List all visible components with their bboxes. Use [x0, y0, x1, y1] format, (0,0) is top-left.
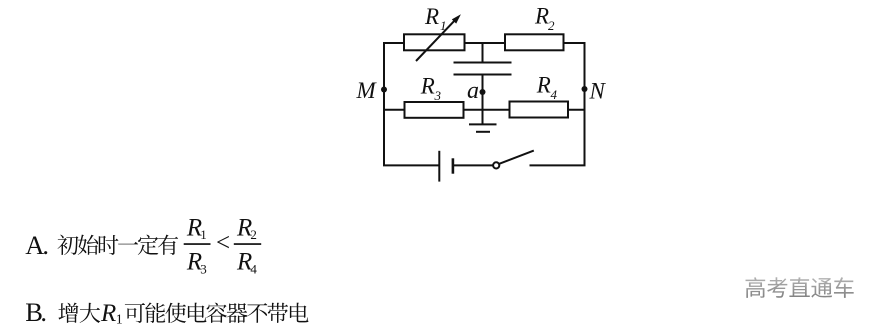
resistor R3 [405, 102, 464, 118]
label R2 [534, 4, 555, 33]
svg-text:.: . [42, 230, 49, 260]
svg-text:R: R [420, 74, 435, 99]
svg-text:4: 4 [250, 262, 257, 277]
option A chinese text 初始时一定有 [58, 235, 179, 255]
svg-text:4: 4 [551, 87, 558, 102]
svg-text:1: 1 [200, 227, 207, 242]
svg-text:1: 1 [440, 18, 447, 33]
label R1 [424, 4, 447, 33]
switch S in bottom branch [493, 151, 534, 169]
option A row [25, 230, 49, 260]
node N (junction dot) [582, 86, 588, 92]
wire: battery to switch [453, 164, 493, 166]
svg-text:R: R [536, 73, 551, 98]
label R3 [420, 74, 442, 104]
svg-text:a: a [467, 78, 479, 104]
ground symbol below node a [469, 124, 497, 131]
option B row [25, 297, 47, 327]
option B chinese text 可能使电容器不带电 [125, 302, 309, 323]
wire: top branch (R1-R2 row) [383, 42, 586, 44]
svg-text:.: . [40, 297, 47, 327]
wire: switch to N side [530, 164, 586, 166]
svg-text:N: N [589, 79, 607, 104]
resistor R4 [510, 102, 569, 118]
resistor R1 (rheostat) with arrow [404, 14, 465, 61]
svg-text:<: < [216, 230, 230, 257]
option B chinese text 增大 [58, 303, 100, 323]
label R4 [536, 73, 558, 103]
wire: bottom branch, M side to battery [383, 164, 439, 166]
wire: right vertical N branch [584, 42, 586, 165]
capacitor C (between bridge mid-points) [454, 43, 512, 124]
svg-text:2: 2 [548, 18, 555, 33]
svg-text:3: 3 [434, 88, 442, 103]
svg-text:2: 2 [250, 227, 257, 242]
fraction R2/R4 [234, 215, 261, 277]
wire: middle branch (R3-R4 row) [383, 109, 586, 111]
svg-text:1: 1 [116, 313, 123, 328]
svg-text:3: 3 [200, 262, 207, 277]
node M (junction dot) [381, 87, 387, 93]
battery (cell) in bottom branch [439, 151, 453, 182]
wire: left vertical M branch [383, 42, 385, 165]
svg-text:R: R [100, 300, 116, 327]
resistor R2 [505, 34, 564, 50]
svg-text:R: R [534, 4, 549, 29]
svg-text:R: R [424, 4, 439, 29]
node a (junction dot) [480, 89, 486, 95]
svg-text:M: M [356, 78, 378, 103]
fraction R1/R3 [184, 215, 211, 277]
